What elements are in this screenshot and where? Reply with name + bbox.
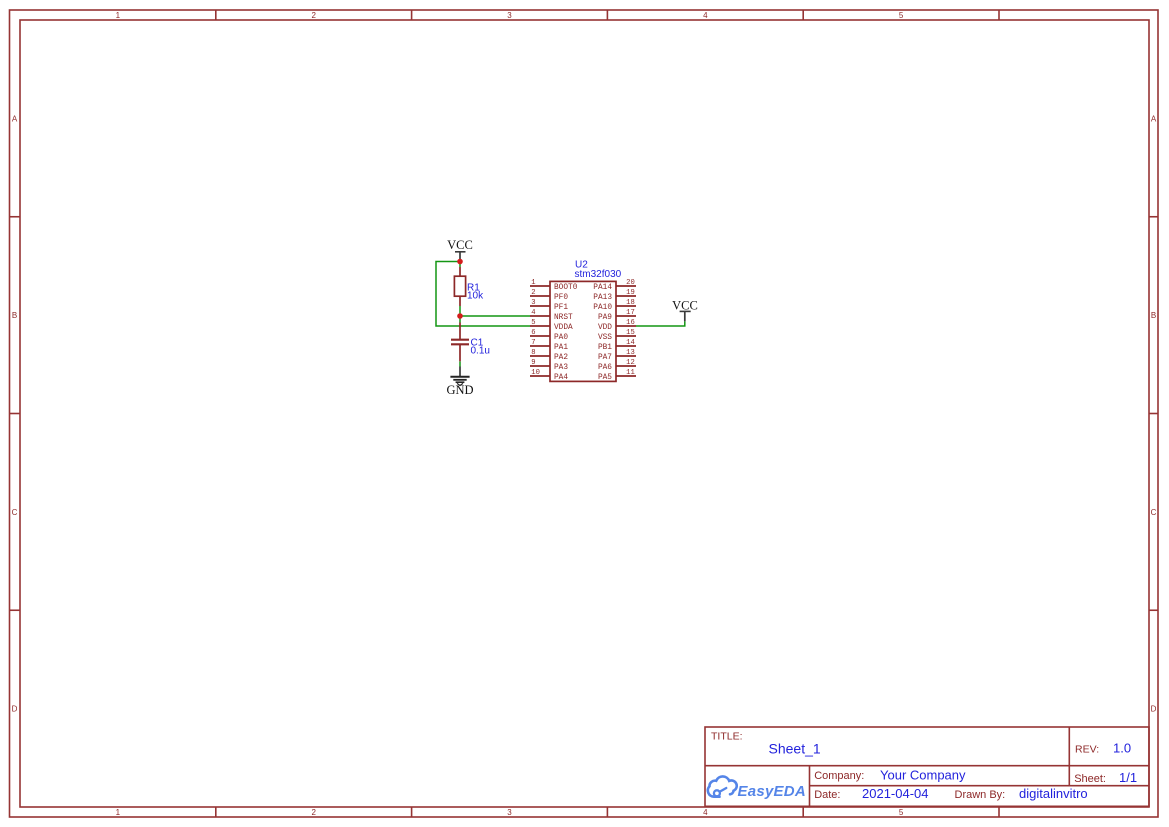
U2 pin 17 PA9 xyxy=(598,309,636,322)
wire NRST node to pin 4 NRST xyxy=(460,315,530,317)
svg-text:3: 3 xyxy=(507,808,512,817)
U2 pin 10 PA4 xyxy=(530,369,568,382)
svg-text:VSS: VSS xyxy=(598,334,612,342)
U2 pin 14 PB1 xyxy=(598,339,636,352)
svg-text:15: 15 xyxy=(626,329,635,337)
svg-text:PA2: PA2 xyxy=(554,354,568,362)
U2 pin 2 PF0 xyxy=(530,289,568,302)
svg-text:18: 18 xyxy=(626,299,635,307)
svg-text:16: 16 xyxy=(626,319,635,327)
svg-text:Company:: Company: xyxy=(814,770,864,782)
ground GND xyxy=(446,367,473,398)
svg-text:Drawn By:: Drawn By: xyxy=(955,789,1006,801)
U2 pin 4 NRST xyxy=(530,309,573,322)
svg-text:PF0: PF0 xyxy=(554,294,568,302)
svg-text:REV:: REV: xyxy=(1075,744,1099,756)
U2 pin 7 PA1 xyxy=(530,339,568,352)
svg-text:PA0: PA0 xyxy=(554,334,568,342)
svg-text:C: C xyxy=(1151,508,1157,517)
svg-text:4: 4 xyxy=(703,11,708,20)
svg-text:2: 2 xyxy=(311,808,316,817)
wire segment VCC node down to R1 xyxy=(459,262,461,268)
U2 pin 3 PF1 xyxy=(530,299,568,312)
svg-text:PB1: PB1 xyxy=(598,344,612,352)
svg-text:GND: GND xyxy=(446,383,473,397)
svg-text:Date:: Date: xyxy=(814,789,840,801)
svg-text:19: 19 xyxy=(626,289,635,297)
U2 pin 12 PA6 xyxy=(598,359,636,372)
svg-text:10k: 10k xyxy=(467,291,484,302)
svg-text:NRST: NRST xyxy=(554,314,573,322)
svg-text:B: B xyxy=(1151,311,1156,320)
svg-text:VDD: VDD xyxy=(598,324,612,332)
svg-text:17: 17 xyxy=(626,309,635,317)
svg-text:PA5: PA5 xyxy=(598,374,612,382)
svg-text:TITLE:: TITLE: xyxy=(711,730,743,742)
U2 pin 16 VDD xyxy=(598,319,636,332)
junction at NRST node xyxy=(457,313,463,319)
svg-text:digitalinvitro: digitalinvitro xyxy=(1019,786,1088,801)
svg-text:10: 10 xyxy=(531,369,540,377)
U2 pin 18 PA10 xyxy=(593,299,636,312)
svg-text:12: 12 xyxy=(626,359,635,367)
svg-text:5: 5 xyxy=(899,808,904,817)
svg-text:VDDA: VDDA xyxy=(554,324,573,332)
U2 pin 8 PA2 xyxy=(530,349,568,362)
svg-text:5: 5 xyxy=(899,11,904,20)
svg-text:PA3: PA3 xyxy=(554,364,568,372)
svg-text:D: D xyxy=(1151,705,1157,714)
U2 pin 15 VSS xyxy=(598,329,636,342)
svg-text:VCC: VCC xyxy=(672,298,698,312)
svg-text:PA13: PA13 xyxy=(593,294,612,302)
svg-text:PA6: PA6 xyxy=(598,364,612,372)
svg-text:1.0: 1.0 xyxy=(1113,741,1131,756)
svg-text:Sheet:: Sheet: xyxy=(1074,773,1106,785)
svg-text:B: B xyxy=(12,311,17,320)
svg-text:C: C xyxy=(12,508,18,517)
svg-text:PF1: PF1 xyxy=(554,304,568,312)
wire VCC right to pin 16 VDD xyxy=(636,321,685,326)
svg-text:4: 4 xyxy=(703,808,708,817)
svg-text:PA14: PA14 xyxy=(593,284,612,292)
svg-text:4: 4 xyxy=(531,309,535,317)
U2 pin 9 PA3 xyxy=(530,359,568,372)
resistor R1 xyxy=(454,267,465,306)
TITLE BLOCK xyxy=(705,727,1149,806)
svg-text:EasyEDA: EasyEDA xyxy=(738,783,806,800)
svg-text:20: 20 xyxy=(626,279,635,287)
svg-text:2: 2 xyxy=(531,289,535,297)
junction at VCC node xyxy=(457,259,463,265)
svg-text:2: 2 xyxy=(311,11,316,20)
svg-text:stm32f030: stm32f030 xyxy=(575,269,622,280)
svg-text:7: 7 xyxy=(531,339,535,347)
svg-text:1: 1 xyxy=(116,11,121,20)
svg-text:A: A xyxy=(12,114,18,123)
svg-text:6: 6 xyxy=(531,329,535,337)
svg-text:VCC: VCC xyxy=(447,238,473,252)
svg-text:2021-04-04: 2021-04-04 xyxy=(862,786,929,801)
svg-text:5: 5 xyxy=(531,319,535,327)
svg-text:8: 8 xyxy=(531,349,535,357)
svg-text:1/1: 1/1 xyxy=(1119,770,1137,785)
svg-text:3: 3 xyxy=(507,11,512,20)
svg-text:A: A xyxy=(1151,114,1157,123)
U2 pin 11 PA5 xyxy=(598,369,636,382)
svg-text:Your Company: Your Company xyxy=(880,767,966,782)
wire VCC node to pin 5 VDDA xyxy=(436,262,530,327)
wire segment C1 to GND xyxy=(459,361,461,366)
power flag VCC right xyxy=(672,298,698,321)
U2 pin 13 PA7 xyxy=(598,349,636,362)
U2 pin 6 PA0 xyxy=(530,329,568,342)
svg-text:13: 13 xyxy=(626,349,635,357)
EasyEDA logo xyxy=(708,776,806,800)
svg-text:1: 1 xyxy=(116,808,121,817)
svg-text:14: 14 xyxy=(626,339,635,347)
svg-text:PA4: PA4 xyxy=(554,374,568,382)
wire segment R1 to NRST node xyxy=(459,306,461,316)
U2 pin 1 BOOT0 xyxy=(530,279,578,292)
U2 pin 5 VDDA xyxy=(530,319,573,332)
svg-text:1: 1 xyxy=(531,279,535,287)
wire segment NRST node down to C1 xyxy=(459,316,461,323)
U2 pin 20 PA14 xyxy=(593,279,636,292)
svg-text:BOOT0: BOOT0 xyxy=(554,284,578,292)
svg-text:9: 9 xyxy=(531,359,535,367)
svg-text:Sheet_1: Sheet_1 xyxy=(769,741,821,757)
svg-text:PA9: PA9 xyxy=(598,314,612,322)
svg-text:D: D xyxy=(12,705,18,714)
svg-text:PA1: PA1 xyxy=(554,344,568,352)
IC U2 stm32f030 body xyxy=(550,281,616,381)
power flag VCC left xyxy=(447,238,473,262)
svg-text:0.1u: 0.1u xyxy=(471,346,490,357)
svg-text:PA7: PA7 xyxy=(598,354,612,362)
svg-text:11: 11 xyxy=(626,369,635,377)
U2 pin 19 PA13 xyxy=(593,289,636,302)
svg-text:3: 3 xyxy=(531,299,535,307)
svg-text:PA10: PA10 xyxy=(593,304,612,312)
capacitor C1 xyxy=(451,323,469,362)
